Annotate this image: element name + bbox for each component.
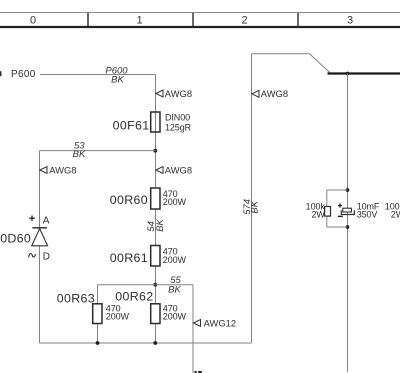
svg-text:200W: 200W [163, 255, 187, 265]
wire resistor branch vertical (x=326.8) [326, 190, 328, 227]
wire net 55 horizontal [98, 284, 194, 286]
svg-text:D: D [43, 251, 50, 262]
wire gauge marker AWG8 (net 57) [252, 88, 288, 99]
svg-text:AWG8: AWG8 [165, 164, 192, 175]
resistor 00R62 [115, 290, 186, 324]
diode 00D60 [0, 216, 50, 263]
svg-text:00R63: 00R63 [57, 292, 95, 306]
svg-text:0: 0 [30, 15, 36, 27]
net label 54 / BK (rotated) [146, 218, 166, 231]
svg-text:AWG8: AWG8 [261, 88, 288, 99]
svg-text:2W: 2W [391, 210, 400, 220]
junction node (subcircuit bottom) [346, 225, 350, 229]
svg-text:3: 3 [347, 15, 353, 27]
wire gauge marker AWG12 [193, 318, 236, 329]
wire net 55 drop vertical (x=193) [192, 285, 194, 373]
svg-text:BK: BK [155, 218, 166, 231]
wire left branch vertical (x=38.5) [39, 151, 41, 343]
junction node (R62 / bottom bus) [153, 341, 157, 345]
svg-text:BK: BK [168, 284, 181, 295]
svg-text:00R62: 00R62 [115, 290, 153, 304]
wire bottom bus horizontal [40, 342, 252, 344]
connector stub P600 (clipped at left edge) [0, 71, 2, 76]
wire cap branch vertical (x=347.5) [347, 74, 349, 373]
svg-text:BK: BK [73, 149, 86, 160]
wire gauge marker AWG8 (chain, below junction) [156, 164, 192, 175]
wire subcircuit bottom horizontal [327, 226, 348, 228]
sheet column ruler [0, 13, 400, 28]
svg-text:00R61: 00R61 [110, 251, 148, 265]
wire net P600 horizontal [40, 74, 156, 76]
wire gauge marker AWG8 (top of chain) [156, 88, 192, 99]
svg-text:00R60: 00R60 [110, 193, 148, 207]
wire subcircuit top horizontal [327, 189, 348, 191]
svg-text:200W: 200W [163, 312, 187, 322]
svg-text:200W: 200W [163, 197, 187, 207]
junction node (net 55 / chain) [153, 283, 157, 287]
svg-text:AWG12: AWG12 [204, 318, 236, 329]
wire net 57 vertical (x=251.5) [251, 54, 253, 343]
wire main chain vertical (x=155.5) [155, 75, 157, 344]
resistor 00R63 [57, 292, 130, 324]
wire net 57 top horizontal [252, 53, 310, 55]
junction node (subcircuit top) [346, 188, 350, 192]
svg-text:2W: 2W [311, 210, 325, 220]
svg-text:1: 1 [136, 15, 142, 27]
svg-text:BK: BK [111, 75, 124, 86]
svg-text:DIN00: DIN00 [165, 113, 190, 123]
fuse 00F61 [113, 112, 192, 133]
svg-text:AWG8: AWG8 [165, 88, 192, 99]
resistor 00R60 [110, 188, 187, 209]
wire bus entry diagonal [310, 54, 331, 73]
resistor 00R61 [110, 246, 187, 267]
resistor 100k 2W [306, 201, 331, 219]
power bus (thick) top right [328, 72, 400, 74]
svg-text:00D60: 00D60 [0, 231, 31, 245]
svg-text:2: 2 [241, 15, 247, 27]
wire R63 branch vertical (x=97.5) [97, 285, 99, 343]
svg-text:BK: BK [250, 200, 261, 213]
net label 574 / BK (rotated) [242, 199, 261, 215]
svg-text:AWG8: AWG8 [49, 164, 76, 175]
capacitor 10mF 350V (electrolytic) [338, 201, 380, 219]
svg-text:00F61: 00F61 [113, 119, 150, 133]
svg-text:125gR: 125gR [165, 123, 192, 133]
junction node (bus / cap branch) [346, 72, 350, 76]
svg-text:P600: P600 [11, 69, 36, 80]
svg-text:350V: 350V [357, 210, 378, 220]
junction node (R63 / bottom bus) [96, 341, 100, 345]
clipped label at bottom edge [195, 371, 202, 373]
wire net 53 horizontal [40, 150, 156, 152]
wire gauge marker AWG8 (left branch) [40, 164, 77, 175]
resistor 100k 2W (clipped at right edge) [385, 201, 400, 219]
svg-text:A: A [43, 216, 50, 227]
svg-text:200W: 200W [106, 312, 130, 322]
junction node (net 53 / chain) [153, 149, 157, 153]
